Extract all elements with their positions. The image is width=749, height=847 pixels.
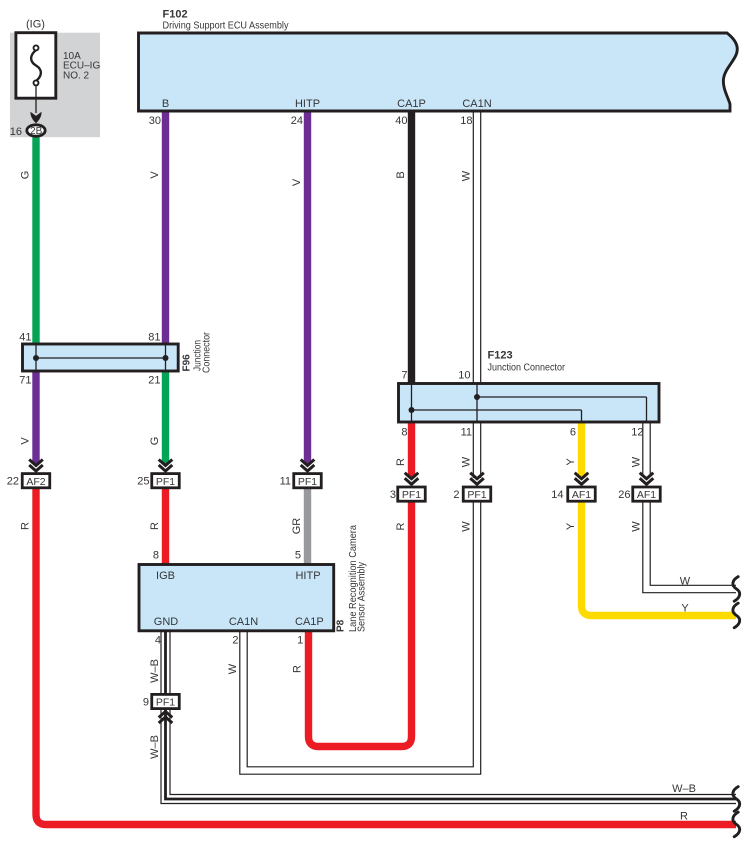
wire R from connector PF1-25 to P8 pin 8 xyxy=(149,488,166,567)
pin HITP P8 label xyxy=(295,570,320,582)
pin CA1P P8 label xyxy=(295,616,324,628)
svg-text:R: R xyxy=(292,665,304,673)
wire W-B from P8 pin 4 through PF1-9 to right edge xyxy=(149,631,736,799)
svg-text:P8: P8 xyxy=(336,619,347,632)
wire B from F102 pin 40 to F123 pin 7 xyxy=(395,111,412,385)
svg-text:CA1P: CA1P xyxy=(295,616,324,628)
svg-text:R: R xyxy=(680,811,688,823)
wire R from connector AF2 to bottom right edge xyxy=(20,488,737,825)
svg-text:V: V xyxy=(149,171,161,179)
svg-text:2B: 2B xyxy=(30,126,43,137)
pin 12 F123 xyxy=(631,427,643,439)
break mark R wire xyxy=(733,812,740,837)
pin CA1N label xyxy=(462,98,491,110)
pin 5 P8 xyxy=(295,550,301,562)
svg-text:2: 2 xyxy=(453,489,459,501)
connector 2B pin 16 xyxy=(10,125,45,138)
svg-text:F96: F96 xyxy=(182,354,193,372)
wire V from F102 pin 30 to F96 pin 81 xyxy=(149,111,166,346)
svg-text:40: 40 xyxy=(395,115,407,127)
svg-text:GND: GND xyxy=(154,616,179,628)
svg-text:V: V xyxy=(20,437,32,445)
camera P8 Lane Recognition Camera Sensor Assembly box xyxy=(139,565,334,631)
junction connector F96 box xyxy=(23,344,179,371)
junction connector F123 box xyxy=(399,384,660,423)
svg-text:1: 1 xyxy=(297,635,303,647)
svg-text:(IG): (IG) xyxy=(26,18,45,30)
label Lane Recognition Camera Sensor Assembly xyxy=(348,525,368,632)
svg-text:Sensor Assembly: Sensor Assembly xyxy=(357,562,368,632)
connector PF1 pin 11 xyxy=(280,460,322,488)
svg-text:CA1N: CA1N xyxy=(229,616,258,628)
wire W from F123 pin 11 to connector PF1-2 xyxy=(461,421,478,478)
label F123 xyxy=(488,350,513,362)
pin 8 F123 xyxy=(401,427,407,439)
pin 1 P8 xyxy=(297,635,303,647)
svg-text:R: R xyxy=(149,522,161,530)
pin B label xyxy=(162,98,169,110)
svg-text:6: 6 xyxy=(570,427,576,439)
svg-text:PF1: PF1 xyxy=(156,697,175,709)
label Driving Support ECU Assembly xyxy=(163,19,290,31)
wire W from connector AF1-26 to right edge xyxy=(631,501,737,589)
svg-text:W–B: W–B xyxy=(149,735,161,759)
svg-text:PF1: PF1 xyxy=(298,476,317,488)
label (IG) xyxy=(26,18,45,30)
wire W from F123 pin 12 to connector AF1-26 xyxy=(631,421,647,477)
connector AF2 pin 22 xyxy=(7,460,50,488)
fuse 10A ECU-IG NO. 2 xyxy=(16,33,101,99)
svg-text:W: W xyxy=(227,663,239,674)
svg-text:Connector: Connector xyxy=(202,331,213,373)
svg-text:CA1P: CA1P xyxy=(397,98,426,110)
svg-text:5: 5 xyxy=(295,550,301,562)
svg-text:24: 24 xyxy=(291,115,303,127)
pin HITP label xyxy=(295,98,320,110)
svg-text:22: 22 xyxy=(7,476,19,488)
pin GND label xyxy=(154,616,179,628)
svg-text:NO. 2: NO. 2 xyxy=(63,70,90,81)
svg-text:PF1: PF1 xyxy=(467,489,486,501)
svg-text:W: W xyxy=(680,576,691,588)
label F102 xyxy=(163,9,188,21)
svg-text:16: 16 xyxy=(10,126,22,138)
svg-text:11: 11 xyxy=(280,476,291,488)
svg-text:4: 4 xyxy=(155,635,161,647)
svg-text:G: G xyxy=(20,171,32,180)
svg-text:10: 10 xyxy=(458,370,470,382)
svg-text:8: 8 xyxy=(401,427,407,439)
wire G from F96 pin 21 to connector PF1-25 xyxy=(149,370,166,464)
svg-text:12: 12 xyxy=(631,427,643,439)
pin 24 xyxy=(291,115,303,127)
svg-text:81: 81 xyxy=(148,332,160,344)
wire G from fuse 2B to F96 pin 41 xyxy=(20,136,37,346)
pin 2 P8 xyxy=(232,635,238,647)
svg-text:W: W xyxy=(461,521,473,532)
connector AF1 pin 14 xyxy=(551,473,595,502)
svg-text:30: 30 xyxy=(149,115,161,127)
svg-text:Y: Y xyxy=(681,603,689,615)
svg-text:AF2: AF2 xyxy=(26,476,45,488)
pin 11 F123 xyxy=(461,427,472,439)
svg-text:CA1N: CA1N xyxy=(462,98,491,110)
wire V from F96 pin 71 to connector AF2 xyxy=(20,370,37,464)
svg-text:7: 7 xyxy=(401,370,407,382)
svg-text:Driving Support ECU Assembly: Driving Support ECU Assembly xyxy=(163,19,290,31)
svg-text:B: B xyxy=(395,171,407,178)
svg-text:26: 26 xyxy=(618,489,630,501)
arrow from fuse to connector 2B xyxy=(30,85,41,123)
svg-text:R: R xyxy=(395,522,407,530)
pin 40 xyxy=(395,115,407,127)
pin 71 xyxy=(19,375,31,387)
break mark W wire xyxy=(733,577,740,602)
svg-text:IGB: IGB xyxy=(156,570,175,582)
fuse block background xyxy=(10,33,100,138)
svg-text:W: W xyxy=(631,456,643,467)
svg-text:PF1: PF1 xyxy=(402,489,421,501)
svg-text:AF1: AF1 xyxy=(572,489,591,501)
svg-text:3: 3 xyxy=(390,489,396,501)
svg-text:HITP: HITP xyxy=(295,570,320,582)
svg-text:W: W xyxy=(631,521,643,532)
wire Y from F123 pin 6 to connector AF1-14 xyxy=(565,421,582,477)
svg-text:Y: Y xyxy=(565,522,577,530)
break mark W-B wire xyxy=(733,787,740,812)
connector PF1 pin 25 xyxy=(137,460,179,488)
wire R from connector PF1-3 to P8 pin 1 xyxy=(292,501,412,747)
pin 7 xyxy=(401,370,407,382)
wire W from F102 pin 18 to F123 pin 10 xyxy=(461,111,478,385)
connector PF1 pin 2 xyxy=(453,473,490,502)
svg-text:21: 21 xyxy=(148,375,160,387)
svg-text:14: 14 xyxy=(551,489,563,501)
wire Y from connector AF1-14 to right edge xyxy=(565,501,736,616)
wire W from connector PF1-2 to P8 pin 2 xyxy=(227,501,477,771)
pin 21 xyxy=(148,375,160,387)
ECU F102 Driving Support ECU Assembly box xyxy=(139,33,738,111)
svg-text:W–B: W–B xyxy=(672,783,696,795)
svg-text:9: 9 xyxy=(143,697,149,709)
pin 30 xyxy=(149,115,161,127)
svg-text:2: 2 xyxy=(232,635,238,647)
label P8 xyxy=(336,619,347,632)
svg-text:R: R xyxy=(20,522,32,530)
pin CA1N P8 label xyxy=(229,616,258,628)
svg-text:HITP: HITP xyxy=(295,98,320,110)
wire R from F123 pin 8 to connector PF1-3 xyxy=(395,421,412,477)
pin 18 xyxy=(460,115,472,127)
svg-text:Junction Connector: Junction Connector xyxy=(488,362,566,374)
connector PF1 pin 3 xyxy=(390,473,425,502)
label F96 Junction Connector xyxy=(193,331,213,373)
svg-text:PF1: PF1 xyxy=(156,476,175,488)
svg-text:71: 71 xyxy=(19,375,31,387)
svg-text:W: W xyxy=(461,456,473,467)
svg-text:11: 11 xyxy=(461,427,472,439)
svg-text:AF1: AF1 xyxy=(637,489,656,501)
connector AF1 pin 26 xyxy=(618,473,660,502)
connector PF1 pin 9 xyxy=(143,694,179,723)
pin CA1P label xyxy=(397,98,426,110)
svg-text:41: 41 xyxy=(19,332,31,344)
svg-text:F123: F123 xyxy=(488,350,513,362)
svg-text:W: W xyxy=(461,170,473,181)
svg-text:Y: Y xyxy=(565,458,577,466)
pin 8 P8 xyxy=(153,550,159,562)
label F123 Junction Connector xyxy=(488,362,566,374)
pin 4 P8 xyxy=(155,635,161,647)
wire GR from connector PF1-11 to P8 pin 5 xyxy=(291,488,308,567)
pin 10 xyxy=(458,370,470,382)
svg-text:8: 8 xyxy=(153,550,159,562)
svg-text:V: V xyxy=(291,178,303,186)
svg-text:R: R xyxy=(395,458,407,466)
svg-text:18: 18 xyxy=(460,115,472,127)
pin 6 F123 xyxy=(570,427,576,439)
pin 41 xyxy=(19,332,31,344)
svg-text:W–B: W–B xyxy=(149,659,161,683)
wire V from F102 pin 24 to connector PF1-11 xyxy=(291,111,308,464)
svg-text:GR: GR xyxy=(291,518,303,535)
pin 81 xyxy=(148,332,160,344)
label F96 xyxy=(182,354,193,372)
pin IGB label xyxy=(156,570,175,582)
break mark Y wire xyxy=(733,603,740,628)
svg-text:25: 25 xyxy=(137,476,149,488)
svg-text:B: B xyxy=(162,98,169,110)
svg-text:G: G xyxy=(149,437,161,446)
